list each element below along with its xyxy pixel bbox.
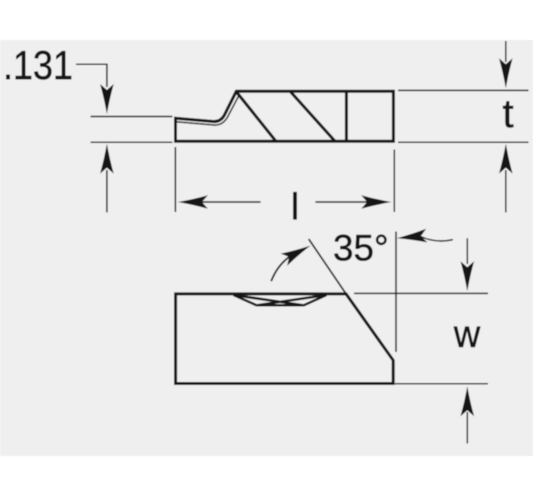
arrowhead t down (499, 58, 513, 88)
dim .131 top extension line (91, 116, 173, 118)
top-view chip groove cross line 2 (257, 295, 327, 305)
dim 35 leader curve (271, 257, 289, 281)
dim 35 arc tail (421, 237, 453, 241)
top-view chip groove outer (234, 295, 327, 305)
arrowhead w up (461, 386, 475, 416)
arrowhead l right (361, 195, 391, 209)
dim l left line (201, 201, 261, 203)
label l (293, 192, 296, 219)
dim .131 lower arrow shaft (106, 170, 108, 212)
dim 35 vertical reference line (395, 232, 397, 352)
side-view hatch line 1 (237, 92, 276, 141)
label w (454, 327, 481, 347)
side-view insert outline (176, 91, 394, 141)
dim w lower arrow shaft (466, 412, 468, 444)
top-view insert outline (176, 294, 394, 384)
dim w bottom extension line (395, 383, 488, 385)
arrowhead w down (461, 261, 475, 291)
35 degree edge extension line (309, 239, 347, 294)
arrowhead .131 down (100, 84, 114, 114)
dim l right extension line (393, 150, 395, 213)
dim w upper arrow shaft (466, 238, 468, 264)
dim t bottom extension line (398, 141, 529, 143)
dim t top extension line (398, 89, 529, 91)
arrowhead t up (499, 144, 513, 174)
label .131 (6, 51, 71, 80)
dim l left extension line (174, 147, 176, 212)
side-view divider line (345, 92, 348, 142)
dim t upper arrow shaft (505, 41, 507, 62)
label 35 degrees (334, 235, 386, 261)
dim w top extension line (354, 292, 488, 294)
top-view chip groove cross line 1 (234, 295, 304, 305)
side-view land line (thin parallel edge line) (176, 95, 239, 125)
side-view hatch line 2 (290, 91, 335, 141)
dim l right line (315, 201, 368, 203)
arrowhead .131 up (100, 144, 114, 174)
dim .131 leader line (76, 64, 107, 87)
dim t lower arrow shaft (505, 170, 507, 212)
arrowhead 35 arc left (396, 229, 427, 245)
arrowhead 35 leader (281, 240, 314, 266)
arrowhead l left (178, 195, 208, 209)
dim .131 bottom extension line (91, 141, 173, 143)
label t (503, 101, 513, 127)
